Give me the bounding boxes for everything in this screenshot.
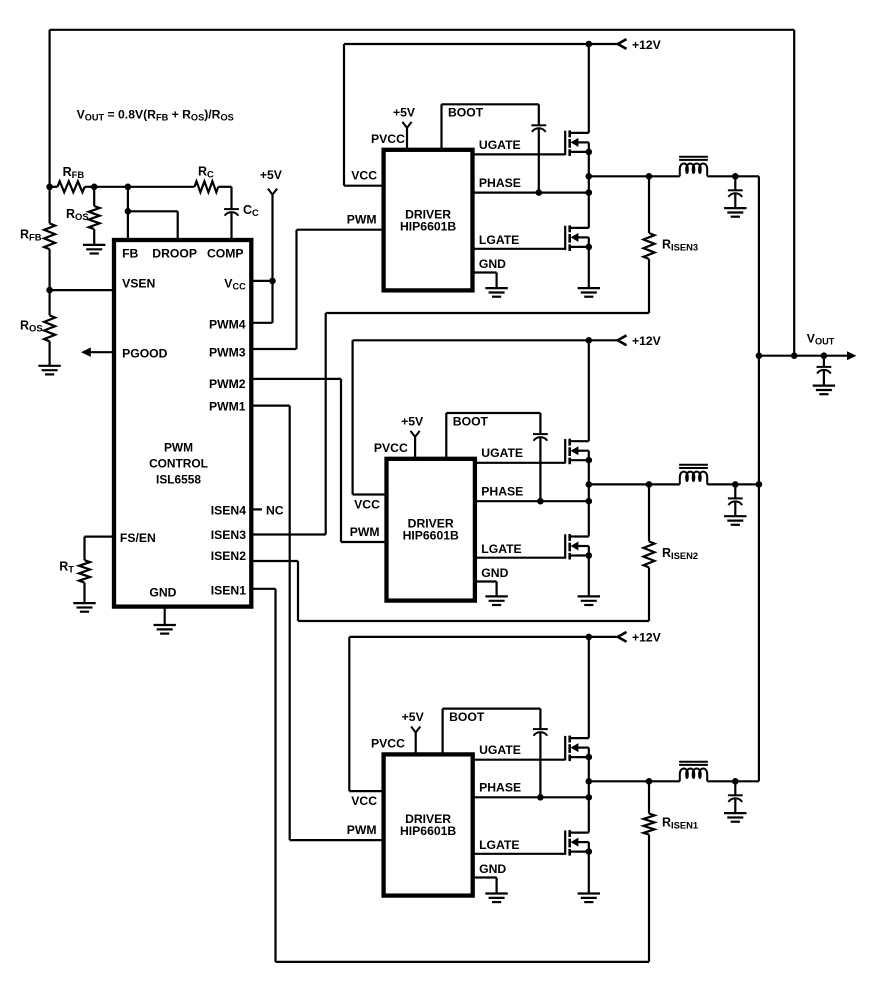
svg-text:ISEN1: ISEN1 (211, 584, 246, 598)
svg-text:HIP6601B: HIP6601B (400, 824, 456, 838)
svg-text:VSEN: VSEN (122, 277, 155, 291)
svg-text:PVCC: PVCC (371, 132, 405, 146)
svg-text:BOOT: BOOT (449, 710, 485, 724)
svg-text:PWM: PWM (347, 823, 377, 837)
svg-text:UGATE: UGATE (481, 446, 523, 460)
svg-text:UGATE: UGATE (479, 743, 521, 757)
svg-text:ISL6558: ISL6558 (156, 472, 201, 486)
svg-text:FS/EN: FS/EN (120, 531, 156, 545)
svg-text:VCC: VCC (351, 168, 377, 182)
svg-text:COMP: COMP (207, 247, 244, 261)
svg-text:+12V: +12V (632, 631, 662, 645)
svg-text:+5V: +5V (393, 106, 416, 120)
svg-text:PWM: PWM (164, 440, 193, 454)
svg-text:PVCC: PVCC (374, 441, 408, 455)
svg-text:PHASE: PHASE (479, 781, 521, 795)
svg-text:PWM4: PWM4 (209, 317, 246, 331)
svg-text:+5V: +5V (402, 710, 425, 724)
svg-text:+12V: +12V (632, 334, 662, 348)
svg-text:GND: GND (479, 257, 506, 271)
svg-text:+12V: +12V (632, 38, 662, 52)
svg-text:LGATE: LGATE (479, 233, 519, 247)
svg-text:CONTROL: CONTROL (149, 456, 208, 470)
svg-text:UGATE: UGATE (479, 138, 521, 152)
svg-text:FB: FB (122, 247, 138, 261)
svg-text:DROOP: DROOP (152, 247, 197, 261)
svg-text:GND: GND (479, 862, 506, 876)
svg-text:PHASE: PHASE (479, 176, 521, 190)
svg-text:ISEN4: ISEN4 (211, 503, 246, 517)
svg-text:BOOT: BOOT (448, 106, 484, 120)
svg-text:+5V: +5V (401, 415, 424, 429)
svg-text:VCC: VCC (354, 497, 380, 511)
svg-text:PWM2: PWM2 (209, 377, 246, 391)
svg-text:LGATE: LGATE (481, 542, 521, 556)
svg-text:PHASE: PHASE (481, 485, 523, 499)
svg-text:BOOT: BOOT (453, 415, 489, 429)
svg-text:VCC: VCC (351, 794, 377, 808)
svg-text:GND: GND (149, 586, 176, 600)
svg-text:PWM3: PWM3 (209, 345, 246, 359)
svg-text:+5V: +5V (260, 168, 283, 182)
svg-text:PWM1: PWM1 (209, 400, 246, 414)
svg-text:NC: NC (266, 503, 284, 517)
svg-text:ISEN3: ISEN3 (211, 528, 246, 542)
svg-text:HIP6601B: HIP6601B (400, 219, 456, 233)
svg-text:LGATE: LGATE (479, 838, 519, 852)
svg-text:HIP6601B: HIP6601B (403, 528, 459, 542)
svg-text:PWM: PWM (347, 213, 377, 227)
svg-text:ISEN2: ISEN2 (211, 549, 246, 563)
svg-text:PGOOD: PGOOD (122, 347, 168, 361)
svg-text:PWM: PWM (350, 525, 380, 539)
svg-text:GND: GND (481, 566, 508, 580)
svg-text:PVCC: PVCC (371, 737, 405, 751)
